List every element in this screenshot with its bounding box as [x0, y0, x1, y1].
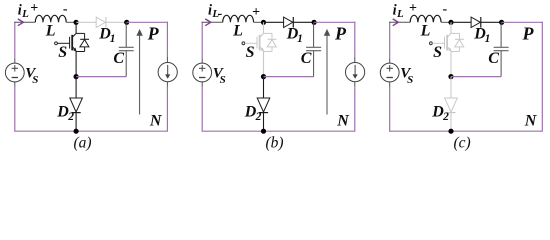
node: junction of S emitter, D2 anode and C return	[261, 74, 266, 79]
capacitor C (a)	[125, 22, 127, 47]
svg-text:-: -	[443, 2, 448, 17]
wire: left rail bottom (source to bottom-left corner)	[389, 82, 391, 87]
svg-text:L: L	[232, 23, 243, 40]
wire: node2 to capacitor bottom plate	[76, 76, 126, 78]
svg-text:P: P	[147, 24, 160, 44]
wire: bottom rail N	[14, 130, 168, 132]
wire: right rail bottom (N side)	[166, 82, 168, 87]
diode D1 (b)	[264, 17, 315, 28]
wire: bottom rail N	[389, 130, 543, 132]
svg-text:N: N	[524, 113, 538, 130]
svg-text:S: S	[246, 44, 255, 61]
wire: right rail bottom (N side)	[354, 82, 356, 87]
capacitor C (b)	[313, 22, 315, 47]
svg-text:+: +	[409, 1, 417, 16]
node: junction of L, S and D1	[448, 20, 453, 25]
current source load between P and N	[158, 63, 177, 82]
svg-text:-: -	[63, 2, 68, 17]
wire: left rail top (source to top-left corner)	[201, 22, 203, 59]
svg-text:1: 1	[297, 33, 303, 45]
node: junction of S emitter, D2 anode and C return	[74, 74, 79, 79]
svg-text:1: 1	[485, 33, 491, 45]
wire: left rail top (source to top-left corner)	[389, 22, 391, 59]
svg-text:S: S	[32, 74, 38, 86]
voltage source VS (c)	[380, 63, 399, 82]
svg-text:(c): (c)	[454, 135, 471, 152]
diode D1 (a)	[76, 17, 127, 28]
capacitor C (c)	[500, 22, 502, 47]
inductor L (b)	[223, 15, 254, 22]
current direction arrow i_L	[205, 19, 211, 26]
voltage arrow from N up to P	[139, 34, 141, 115]
wire: left rail top (source to top-left corner)	[14, 22, 16, 59]
inductor L (a)	[35, 15, 66, 22]
svg-text:2: 2	[67, 111, 74, 123]
wire: top-left segment to inductor L	[14, 21, 35, 23]
svg-text:+: +	[30, 1, 38, 16]
svg-text:(a): (a)	[74, 135, 92, 152]
diode D2 (a)	[70, 77, 83, 132]
voltage source VS (a)	[5, 63, 24, 82]
voltage source VS (b)	[193, 63, 212, 82]
svg-text:S: S	[407, 74, 413, 86]
wire: inductor to junction node	[441, 21, 451, 23]
svg-text:P: P	[334, 24, 347, 44]
svg-text:S: S	[433, 44, 442, 61]
wire: top-left segment to inductor L	[202, 21, 223, 23]
node: junction of D1, C and top rail to P	[499, 20, 504, 25]
node: junction of S emitter, D2 anode and C return	[448, 74, 453, 79]
wire: node2 to capacitor bottom plate	[451, 76, 501, 78]
current source load between P and N	[346, 63, 365, 82]
svg-text:(b): (b)	[266, 135, 284, 152]
svg-text:N: N	[149, 113, 163, 130]
svg-text:-: -	[218, 6, 223, 21]
svg-text:P: P	[522, 24, 535, 44]
wire: top rail from junction to P corner	[127, 21, 168, 23]
node: D2 cathode on bottom rail	[74, 129, 79, 134]
wire: top rail from junction to P corner	[502, 21, 543, 23]
transistor S (IGBT with antiparallel diode) (a)	[55, 22, 89, 76]
svg-text:C: C	[301, 50, 312, 67]
diode D1 (c)	[451, 17, 502, 28]
svg-text:1: 1	[110, 33, 116, 45]
node: D2 cathode on bottom rail	[261, 129, 266, 134]
diode D2 (c)	[445, 77, 458, 132]
node: junction of L, S and D1	[261, 20, 266, 25]
wire: bottom rail N	[202, 130, 356, 132]
node: junction of D1, C and top rail to P	[124, 20, 129, 25]
svg-text:C: C	[488, 50, 499, 67]
svg-text:L: L	[45, 23, 56, 40]
voltage arrow from N up to P	[326, 34, 328, 115]
transistor S (IGBT with antiparallel diode) (c)	[430, 22, 464, 76]
svg-text:L: L	[420, 23, 431, 40]
wire: node2 to capacitor bottom plate	[264, 76, 314, 78]
current direction arrow i_L	[393, 19, 399, 26]
svg-text:S: S	[220, 74, 226, 86]
wire: inductor to junction node	[66, 21, 76, 23]
inductor L (c)	[410, 15, 441, 22]
svg-text:L: L	[21, 8, 29, 20]
svg-text:2: 2	[255, 111, 262, 123]
svg-text:C: C	[113, 50, 124, 67]
wire: right rail top (P side)	[354, 22, 356, 57]
wire: right rail	[541, 22, 543, 132]
wire: left rail bottom (source to bottom-left corner)	[14, 82, 16, 87]
svg-text:L: L	[396, 8, 404, 20]
svg-text:2: 2	[442, 111, 449, 123]
wire: top-left segment to inductor L	[389, 21, 410, 23]
svg-text:+: +	[252, 5, 260, 20]
node: junction of L, S and D1	[74, 20, 79, 25]
svg-text:N: N	[336, 113, 350, 130]
wire: inductor to junction node	[254, 21, 264, 23]
node: D2 cathode on bottom rail	[448, 129, 453, 134]
svg-text:S: S	[58, 44, 67, 61]
wire: right rail top (P side)	[166, 22, 168, 57]
node: junction of D1, C and top rail to P	[312, 20, 317, 25]
wire: top rail from junction to P corner	[314, 21, 355, 23]
transistor S (IGBT with antiparallel diode) (b)	[242, 22, 276, 76]
diode D2 (b)	[257, 77, 270, 132]
wire: left rail bottom (source to bottom-left corner)	[201, 82, 203, 87]
current direction arrow i_L	[18, 19, 24, 26]
